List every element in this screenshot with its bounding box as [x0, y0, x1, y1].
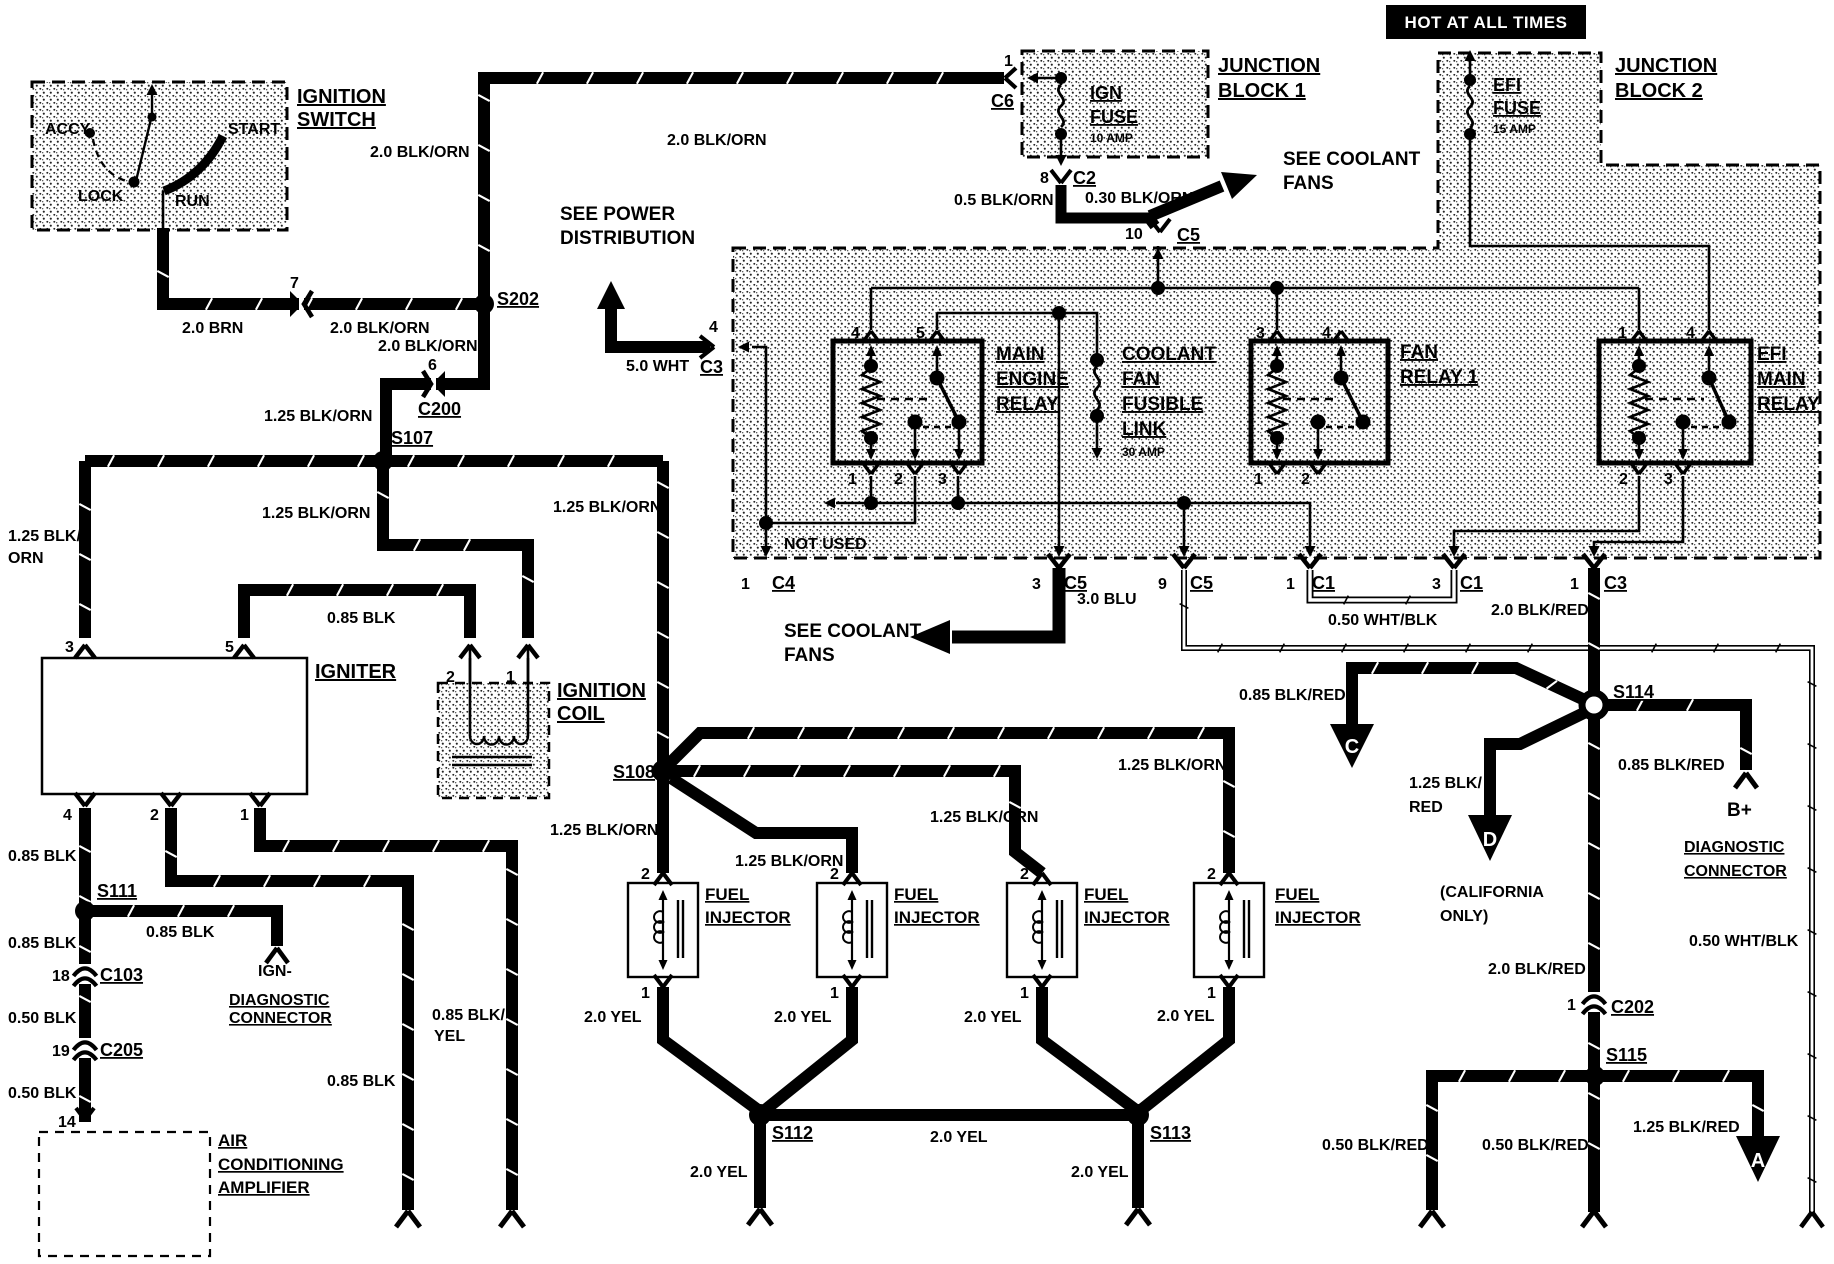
- label 0.85 BLK/ YEL: [432, 1007, 505, 1045]
- svg-text:2: 2: [446, 669, 455, 686]
- svg-text:FANS: FANS: [1283, 173, 1334, 194]
- svg-text:1.25 BLK/: 1.25 BLK/: [8, 528, 81, 545]
- svg-text:INJECTOR: INJECTOR: [1084, 908, 1170, 927]
- fuel injector 2 labels: [830, 866, 980, 1002]
- svg-text:C: C: [1345, 736, 1359, 758]
- EFI main relay: [1599, 325, 1751, 488]
- label 1.25 BLK/ORN inj2: [735, 853, 843, 870]
- label 2.0 BLK/RED upper: [1491, 602, 1589, 619]
- wire 1.25 BLK/ORN S108 to injector 3: [663, 765, 1042, 873]
- drop C5-10 to rail: [1157, 246, 1160, 288]
- svg-text:SWITCH: SWITCH: [297, 109, 376, 131]
- arrow up at C5-10: [1153, 248, 1164, 259]
- svg-text:2.0 BLK/ORN: 2.0 BLK/ORN: [330, 320, 430, 337]
- arrow down at C1-3 exit: [1449, 546, 1460, 557]
- wire 2.0 YEL injector1 to S112: [663, 987, 758, 1110]
- svg-text:2.0 BLK/ORN: 2.0 BLK/ORN: [370, 144, 470, 161]
- svg-text:FAN: FAN: [1400, 342, 1438, 363]
- connector C5-3 fork: [1048, 554, 1070, 568]
- wire 2.0 BLK/ORN S202 up to C6: [478, 72, 1004, 304]
- connector C1-1 fork: [1299, 554, 1321, 568]
- label 5.0 WHT: [626, 358, 689, 375]
- svg-text:START: START: [228, 121, 280, 138]
- drop main relay pin 5: [936, 313, 939, 330]
- svg-text:IGNITION: IGNITION: [297, 86, 386, 108]
- fuel injector 3: [1007, 873, 1077, 987]
- label C200: [418, 399, 461, 419]
- svg-text:C3: C3: [700, 357, 723, 377]
- wire 0.85 BLK igniter pin4 to AC amplifier: [79, 808, 90, 1122]
- svg-text:2.0 YEL: 2.0 YEL: [1071, 1164, 1129, 1181]
- label 0.85 BLK branch: [146, 924, 215, 941]
- ignition coil core: [452, 757, 532, 765]
- label 2.0 YEL between: [930, 1129, 988, 1146]
- arrow down at C1-1 exit: [1305, 546, 1316, 557]
- label 1 C6: [991, 53, 1014, 111]
- connector C5 pin 10 fork: [1150, 219, 1170, 232]
- svg-text:RELAY: RELAY: [996, 394, 1059, 415]
- label S107: [391, 428, 433, 448]
- wire 1.25 BLK/RED S115 right to A arrow: [1594, 1070, 1764, 1138]
- svg-text:0.50 WHT/BLK: 0.50 WHT/BLK: [1689, 933, 1799, 950]
- svg-text:2.0 BLK/ORN: 2.0 BLK/ORN: [667, 132, 767, 149]
- foot S112: [748, 1209, 772, 1225]
- label 1.25 BLK/ ORN far left: [8, 528, 81, 567]
- foot center 0.50 BLK/RED: [1582, 1211, 1606, 1227]
- svg-text:FUEL: FUEL: [894, 885, 938, 904]
- wire EFI fuse to EFI main relay pin 4: [1470, 134, 1709, 330]
- svg-text:FANS: FANS: [784, 645, 835, 666]
- svg-text:FUSE: FUSE: [1493, 98, 1541, 118]
- svg-text:0.85 BLK: 0.85 BLK: [8, 848, 77, 865]
- svg-text:S114: S114: [1613, 682, 1654, 702]
- label S108: [613, 762, 655, 782]
- junction S114 ring: [1582, 693, 1606, 717]
- svg-text:FAN: FAN: [1122, 369, 1160, 390]
- arrow down at C5-3 exit: [1054, 546, 1065, 557]
- svg-text:0.50 BLK: 0.50 BLK: [8, 1085, 77, 1102]
- igniter pin 1 connector: [250, 793, 270, 806]
- svg-text:ACCY: ACCY: [45, 121, 91, 138]
- svg-text:1.25 BLK/ORN: 1.25 BLK/ORN: [264, 408, 372, 425]
- connector C200 inline: [423, 371, 445, 397]
- svg-text:3: 3: [65, 639, 74, 656]
- junction S111: [75, 901, 95, 921]
- junction dot pin1 on rail: [864, 496, 878, 510]
- svg-text:S113: S113: [1150, 1123, 1191, 1143]
- svg-text:2: 2: [641, 866, 650, 883]
- branch up to C3-4 exit: [752, 347, 766, 523]
- ignition switch position labels: [45, 121, 280, 210]
- svg-text:0.85 BLK: 0.85 BLK: [327, 610, 396, 627]
- label 14: [58, 1114, 76, 1131]
- HOT AT ALL TIMES banner: [1386, 5, 1586, 39]
- svg-text:S111: S111: [97, 881, 137, 901]
- label S202: [497, 289, 539, 309]
- label COOLANT FAN FUSIBLE LINK 30 AMP: [1122, 344, 1216, 459]
- drop main relay pin 3: [957, 476, 960, 503]
- svg-text:2.0 BLK/RED: 2.0 BLK/RED: [1491, 602, 1589, 619]
- svg-text:CONNECTOR: CONNECTOR: [229, 1010, 332, 1027]
- wire 0.85 BLK/RED to C arrow: [1352, 662, 1589, 724]
- label 0.50 BLK upper: [8, 1010, 77, 1027]
- svg-text:1.25 BLK/ORN: 1.25 BLK/ORN: [1118, 757, 1226, 774]
- label 1.25 BLK/ORN inj3: [930, 809, 1038, 826]
- wire 0.85 BLK/YEL igniter pin1 down: [260, 808, 518, 1210]
- svg-text:9: 9: [1158, 576, 1167, 593]
- wire 0.85 BLK igniter pin2 down: [165, 808, 413, 1210]
- svg-text:JUNCTION: JUNCTION: [1218, 55, 1320, 77]
- label 0.50 BLK lower: [8, 1085, 77, 1102]
- svg-text:C3: C3: [1604, 573, 1627, 593]
- foot 0.85 BLK/YEL: [500, 1211, 524, 1227]
- arrow D california: [1468, 815, 1512, 861]
- wire 1.25 BLK/RED to D arrow: [1490, 710, 1590, 817]
- svg-text:BLOCK 1: BLOCK 1: [1218, 80, 1306, 102]
- wire 2.0 BLK/ORN S202 down to C200: [386, 304, 484, 458]
- label CALIFORNIA ONLY: [1440, 884, 1544, 925]
- svg-text:2: 2: [894, 471, 903, 488]
- svg-text:EFI: EFI: [1757, 344, 1787, 365]
- svg-text:4: 4: [851, 325, 860, 342]
- svg-text:1: 1: [848, 471, 857, 488]
- label 1 C202: [1567, 997, 1654, 1017]
- label 2.0 YEL S112: [690, 1164, 748, 1181]
- junction dot C5-3 feed: [1052, 306, 1066, 320]
- see power distribution arrow: [597, 281, 710, 347]
- wire 1.25 BLK/ORN S107 to ignition coil pin 1: [377, 461, 533, 638]
- label 3.0 BLU: [1077, 591, 1137, 608]
- fuel injector 3 labels: [1020, 866, 1170, 1002]
- label 0.50 WHT/BLK jumper: [1328, 612, 1438, 629]
- svg-text:5: 5: [225, 639, 234, 656]
- svg-text:FUEL: FUEL: [1084, 885, 1128, 904]
- fuel injector 4: [1194, 873, 1264, 987]
- junction block 1 box: [1022, 51, 1208, 157]
- svg-text:2: 2: [1020, 866, 1029, 883]
- label 2.0 BLK/RED lower: [1488, 961, 1586, 978]
- connector C2 fork: [1051, 170, 1071, 183]
- label S113: [1150, 1123, 1191, 1143]
- label SEE COOLANT FANS upper: [1283, 149, 1421, 194]
- label 0.85 BLK coil: [327, 610, 396, 627]
- junction S108: [652, 760, 674, 782]
- svg-text:B+: B+: [1727, 800, 1752, 821]
- svg-text:3: 3: [1032, 576, 1041, 593]
- svg-text:C2: C2: [1073, 168, 1096, 188]
- svg-text:RELAY 1: RELAY 1: [1400, 367, 1479, 388]
- svg-text:C205: C205: [100, 1040, 143, 1060]
- wire 2.0 YEL S113 down: [1132, 1115, 1144, 1208]
- igniter pin 4 connector: [75, 793, 95, 806]
- svg-text:5: 5: [916, 325, 925, 342]
- svg-text:SEE COOLANT: SEE COOLANT: [1283, 149, 1421, 170]
- svg-text:IGNITION: IGNITION: [557, 680, 646, 702]
- svg-text:AMPLIFIER: AMPLIFIER: [218, 1178, 310, 1197]
- svg-text:1: 1: [641, 985, 650, 1002]
- svg-text:1.25 BLK/ORN: 1.25 BLK/ORN: [262, 505, 370, 522]
- connector C6 fork: [1005, 68, 1016, 88]
- ignition switch housing box: [32, 82, 287, 230]
- junction dot C4 branch: [759, 516, 773, 530]
- svg-text:C5: C5: [1190, 573, 1213, 593]
- svg-text:IGNITER: IGNITER: [315, 661, 397, 683]
- svg-text:14: 14: [58, 1114, 76, 1131]
- svg-text:1: 1: [741, 576, 750, 593]
- drop to C5-3 exit: [1058, 313, 1061, 548]
- junction S107: [373, 451, 393, 471]
- label 19 C205: [52, 1040, 143, 1060]
- svg-text:1: 1: [830, 985, 839, 1002]
- label 2.0 BRN: [182, 320, 243, 337]
- svg-text:INJECTOR: INJECTOR: [1275, 908, 1361, 927]
- junction S112: [749, 1104, 771, 1126]
- connector C202 inline: [1583, 992, 1606, 1014]
- foot B+ stub: [1735, 773, 1757, 788]
- see coolant fans arrow lower: [910, 620, 950, 654]
- label S112: [772, 1123, 813, 1143]
- svg-text:7: 7: [290, 275, 299, 292]
- label 2.0 BLK/ORN vertical: [370, 144, 470, 161]
- ignition coil box: [438, 683, 549, 798]
- svg-text:2.0 YEL: 2.0 YEL: [690, 1164, 748, 1181]
- svg-text:0.85 BLK: 0.85 BLK: [8, 935, 77, 952]
- EFI fuse feed arrow: [1465, 50, 1476, 80]
- label 0.30 BLK/ORN: [1085, 190, 1193, 207]
- label 0.50 BLK/RED center: [1482, 1137, 1589, 1154]
- fuel injector 4 labels: [1207, 866, 1361, 1002]
- wire 0.85 BLK S111 to diagnostic connector: [85, 905, 277, 946]
- ignition coil primary winding: [470, 658, 528, 745]
- svg-text:2: 2: [150, 807, 159, 824]
- wire 1.25 BLK/ORN S107 to S108: [657, 461, 668, 771]
- svg-text:30 AMP: 30 AMP: [1122, 445, 1165, 459]
- svg-text:1.25 BLK/ORN: 1.25 BLK/ORN: [930, 809, 1038, 826]
- arrow down at C3-1 exit: [1589, 546, 1600, 557]
- label 4 C3: [700, 319, 723, 377]
- label IGN- DIAGNOSTIC CONNECTOR: [229, 963, 332, 1027]
- svg-text:ENGINE: ENGINE: [996, 369, 1069, 390]
- labels 2.0 YEL injectors: [584, 1008, 1215, 1026]
- fuel injector 2: [817, 873, 887, 987]
- svg-text:2: 2: [1301, 471, 1310, 488]
- label 6: [428, 357, 437, 374]
- svg-text:0.5 BLK/ORN: 0.5 BLK/ORN: [954, 192, 1054, 209]
- label 2.0 BLK/ORN lower: [330, 320, 430, 337]
- svg-text:0.50 BLK/RED: 0.50 BLK/RED: [1482, 1137, 1589, 1154]
- svg-text:18: 18: [52, 968, 70, 985]
- label EFI FUSE 15 AMP: [1493, 75, 1541, 136]
- label 0.85 BLK tail: [327, 1073, 396, 1090]
- label 7: [290, 275, 299, 292]
- label IGN FUSE 10 AMP: [1090, 83, 1138, 145]
- svg-text:0.85 BLK: 0.85 BLK: [146, 924, 215, 941]
- see coolant fans arrow upper: [1150, 172, 1257, 216]
- fan relay 1: [1251, 325, 1388, 488]
- svg-text:2.0 BLK/RED: 2.0 BLK/RED: [1488, 961, 1586, 978]
- label 1.25 BLK/ORN below rail: [262, 505, 370, 522]
- svg-text:COIL: COIL: [557, 703, 605, 725]
- junction S115: [1585, 1066, 1605, 1086]
- svg-text:1: 1: [1207, 985, 1216, 1002]
- svg-text:NOT USED: NOT USED: [784, 536, 867, 553]
- label 1.25 BLK/ORN S108 left: [550, 822, 658, 839]
- label 0.85 BLK above S111: [8, 848, 77, 865]
- svg-text:15 AMP: 15 AMP: [1493, 122, 1536, 136]
- label 1.25 BLK/ORN inj4: [1118, 757, 1226, 774]
- svg-text:1: 1: [240, 807, 249, 824]
- svg-text:5.0 WHT: 5.0 WHT: [626, 358, 689, 375]
- svg-text:EFI: EFI: [1493, 75, 1521, 95]
- svg-text:4: 4: [709, 319, 718, 336]
- svg-text:IGN: IGN: [1090, 83, 1122, 103]
- svg-text:FUEL: FUEL: [1275, 885, 1319, 904]
- drop rail to EFI pin1: [1638, 288, 1641, 330]
- connector C205 inline: [74, 1038, 97, 1060]
- label B+ DIAGNOSTIC CONNECTOR: [1684, 800, 1787, 880]
- drop rail to fan relay pin 3: [1276, 288, 1279, 330]
- junction dot C5-9 on rail: [1177, 496, 1191, 510]
- svg-text:1: 1: [1004, 53, 1013, 70]
- svg-text:C4: C4: [772, 573, 795, 593]
- svg-text:RUN: RUN: [175, 193, 210, 210]
- arrow down at C5-9 exit: [1179, 546, 1190, 557]
- arrow C california: [1330, 724, 1374, 768]
- label 0.85 BLK/RED left: [1239, 687, 1346, 704]
- label 0.50 WHT/BLK long: [1689, 933, 1799, 950]
- ignition switch label: [297, 86, 386, 131]
- connector C103 inline: [74, 964, 97, 986]
- svg-text:A: A: [1751, 1150, 1765, 1172]
- junction dot pin3 on rail: [951, 496, 965, 510]
- svg-text:2.0 BLK/ORN: 2.0 BLK/ORN: [378, 338, 478, 355]
- arrow left at rail end: [824, 498, 835, 509]
- svg-text:10 AMP: 10 AMP: [1090, 131, 1133, 145]
- wire 1.25 BLK/ORN S107 horizontal rail: [85, 455, 663, 466]
- label JUNCTION BLOCK 2: [1615, 55, 1717, 102]
- svg-text:1: 1: [1254, 471, 1263, 488]
- wire 2.0 YEL S112 down: [754, 1115, 766, 1208]
- wire 2.0 BLK/RED trunk C3-1 to bottom: [1588, 568, 1599, 1212]
- label JUNCTION BLOCK 1: [1218, 55, 1320, 102]
- svg-text:LOCK: LOCK: [78, 188, 124, 205]
- label S114: [1613, 682, 1654, 702]
- svg-text:2: 2: [830, 866, 839, 883]
- coil pin numbers: [446, 669, 515, 686]
- svg-text:0.50 BLK: 0.50 BLK: [8, 1010, 77, 1027]
- svg-text:19: 19: [52, 1043, 70, 1060]
- svg-text:C202: C202: [1611, 997, 1654, 1017]
- label 10 C5: [1125, 225, 1200, 245]
- connector C1-3 fork: [1443, 554, 1465, 568]
- svg-text:1.25 BLK/ORN: 1.25 BLK/ORN: [550, 822, 658, 839]
- main engine relay: [833, 325, 982, 488]
- svg-text:D: D: [1483, 829, 1497, 851]
- svg-text:1: 1: [1286, 576, 1295, 593]
- svg-text:3: 3: [1432, 576, 1441, 593]
- wire 0.85 BLK/RED to B+: [1594, 699, 1752, 770]
- svg-text:S112: S112: [772, 1123, 813, 1143]
- fuel injector 1 labels: [641, 866, 791, 1002]
- igniter box: [42, 658, 307, 794]
- label 0.5 BLK/ORN: [954, 192, 1054, 209]
- svg-text:0.85 BLK/RED: 0.85 BLK/RED: [1239, 687, 1346, 704]
- svg-text:2.0 YEL: 2.0 YEL: [584, 1009, 642, 1026]
- ignition switch symbol: [85, 84, 223, 229]
- connector C5-9 fork: [1173, 554, 1195, 568]
- rail to relay coils y288: [871, 287, 1639, 290]
- AC amplifier pin 14 connector: [76, 1108, 94, 1120]
- svg-text:MAIN: MAIN: [996, 344, 1045, 365]
- svg-text:INJECTOR: INJECTOR: [705, 908, 791, 927]
- main relay pin2 to C4 and C3-4: [766, 476, 915, 523]
- label 0.85 BLK below S111: [8, 935, 77, 952]
- foot left 0.50 BLK/RED: [1420, 1211, 1444, 1227]
- svg-text:3.0 BLU: 3.0 BLU: [1077, 591, 1137, 608]
- svg-text:LINK: LINK: [1122, 419, 1167, 440]
- svg-text:1: 1: [1618, 325, 1627, 342]
- svg-text:ORN: ORN: [8, 550, 44, 567]
- svg-text:0.50 BLK/RED: 0.50 BLK/RED: [1322, 1137, 1429, 1154]
- svg-text:4: 4: [63, 807, 72, 824]
- svg-text:JUNCTION: JUNCTION: [1615, 55, 1717, 77]
- svg-text:2.0 BRN: 2.0 BRN: [182, 320, 243, 337]
- label 0.50 BLK/RED left: [1322, 1137, 1429, 1154]
- wire 1.25 BLK/ORN S108 to injector 4: [669, 727, 1235, 873]
- svg-text:ONLY): ONLY): [1440, 908, 1488, 925]
- svg-text:2.0 YEL: 2.0 YEL: [1157, 1008, 1215, 1025]
- svg-text:FUSE: FUSE: [1090, 107, 1138, 127]
- svg-text:C1: C1: [1312, 573, 1335, 593]
- svg-text:C1: C1: [1460, 573, 1483, 593]
- fuel injector 1: [628, 873, 698, 987]
- wire 2.0 YEL injector2 to S112: [765, 987, 852, 1110]
- svg-text:1.25 BLK/ORN: 1.25 BLK/ORN: [735, 853, 843, 870]
- svg-text:INJECTOR: INJECTOR: [894, 908, 980, 927]
- labels bottom exits: [741, 573, 1627, 593]
- igniter pin 5 connector: [234, 645, 254, 658]
- label NOT USED: [784, 536, 867, 553]
- label S115: [1606, 1045, 1647, 1065]
- wire 1.25 BLK/ORN to igniter pin 3: [79, 461, 90, 638]
- svg-text:CONDITIONING: CONDITIONING: [218, 1155, 344, 1174]
- label FAN RELAY 1: [1400, 342, 1479, 388]
- wire 1.25 BLK/ORN S108 to injector 1: [657, 771, 669, 873]
- rail y503 switched output: [836, 503, 1310, 548]
- label 2.0 YEL S113: [1071, 1164, 1129, 1181]
- svg-text:RED: RED: [1409, 799, 1443, 816]
- wire 0.50 WHT/BLK long diagnostic: [1180, 570, 1817, 1212]
- drop main relay pin 1: [870, 476, 873, 503]
- svg-text:1: 1: [506, 669, 515, 686]
- svg-text:DIAGNOSTIC: DIAGNOSTIC: [229, 992, 330, 1009]
- branch down to C4-1 exit: [765, 523, 768, 548]
- wire 2.0 YEL injector3 to S113: [1042, 987, 1136, 1110]
- svg-text:2.0 YEL: 2.0 YEL: [930, 1129, 988, 1146]
- arrow left at C3-4 exit: [738, 342, 749, 353]
- drop rail to main relay pin 4: [870, 288, 873, 330]
- svg-text:DIAGNOSTIC: DIAGNOSTIC: [1684, 839, 1785, 856]
- svg-text:DISTRIBUTION: DISTRIBUTION: [560, 228, 695, 249]
- label 2.0 BLK/ORN above C200: [378, 338, 478, 355]
- arrow down at C4-1 exit: [761, 546, 772, 557]
- label 1.25 BLK/ RED: [1409, 775, 1482, 816]
- foot 0.85 BLK: [396, 1211, 420, 1227]
- wire 0.85 BLK igniter pin5 to coil pin2: [244, 584, 470, 638]
- igniter pin 2 connector: [161, 793, 181, 806]
- igniter pin numbers: [63, 639, 249, 824]
- svg-text:2.0 YEL: 2.0 YEL: [964, 1009, 1022, 1026]
